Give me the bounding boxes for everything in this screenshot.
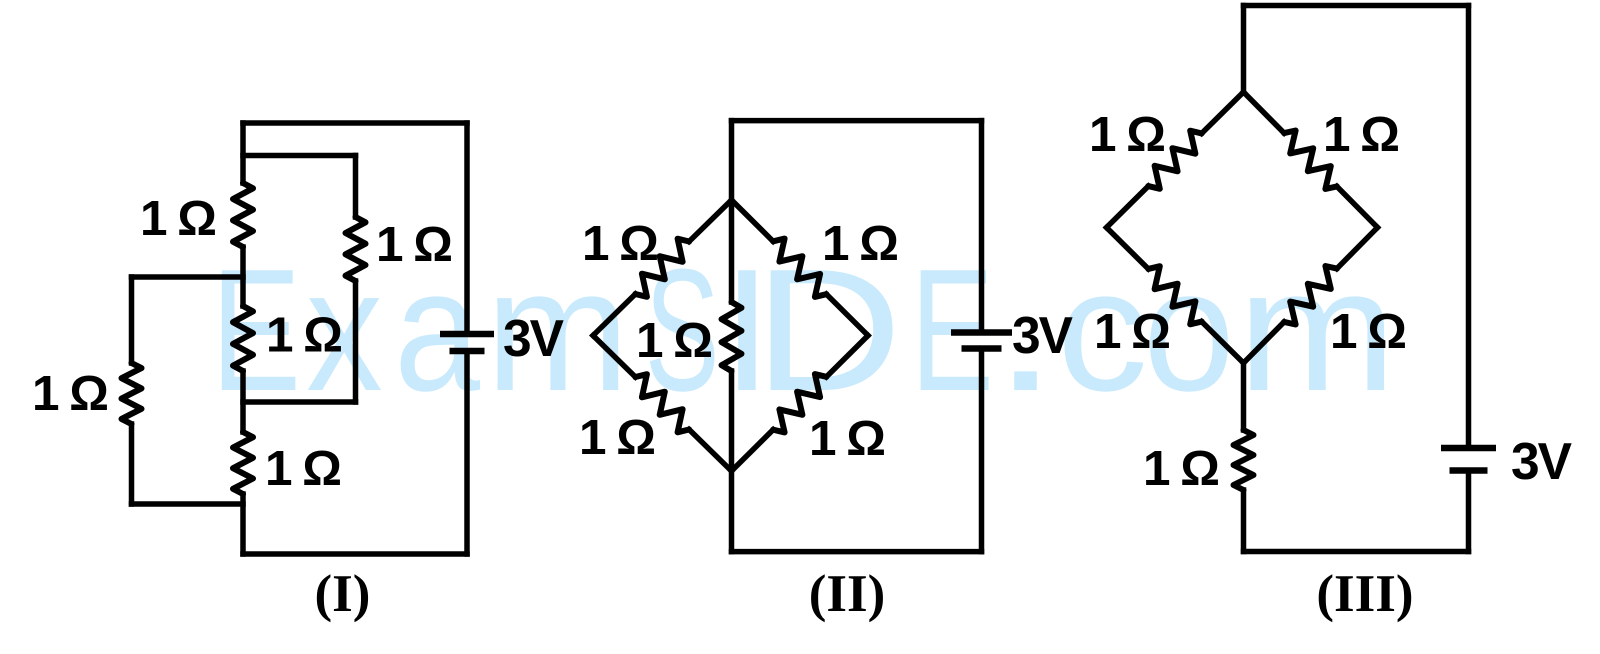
svg-text:1 Ω: 1 Ω [1089, 107, 1164, 162]
svg-text:1 Ω: 1 Ω [376, 217, 451, 272]
svg-text:1 Ω: 1 Ω [822, 216, 897, 271]
svg-text:1 Ω: 1 Ω [1330, 304, 1405, 359]
svg-text:1 Ω: 1 Ω [579, 410, 654, 465]
svg-text:3V: 3V [1511, 432, 1572, 490]
svg-text:(I): (I) [315, 565, 371, 623]
svg-text:1 Ω: 1 Ω [1143, 441, 1218, 496]
svg-text:1 Ω: 1 Ω [265, 441, 340, 496]
svg-text:1 Ω: 1 Ω [32, 366, 107, 421]
svg-text:1 Ω: 1 Ω [1094, 304, 1169, 359]
svg-text:1 Ω: 1 Ω [809, 411, 884, 466]
svg-text:1 Ω: 1 Ω [636, 313, 711, 368]
svg-text:(II): (II) [809, 565, 886, 623]
svg-text:3V: 3V [503, 309, 564, 367]
svg-text:1 Ω: 1 Ω [266, 308, 341, 363]
svg-text:1 Ω: 1 Ω [140, 191, 215, 246]
svg-text:(III): (III) [1316, 565, 1413, 623]
svg-text:3V: 3V [1012, 306, 1073, 364]
svg-text:1 Ω: 1 Ω [1323, 107, 1398, 162]
svg-text:1 Ω: 1 Ω [582, 216, 657, 271]
